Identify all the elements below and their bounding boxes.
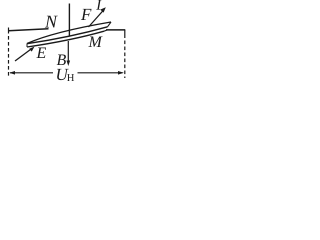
label M [88,37,102,47]
node: left dashed extension vertical [8,28,10,34]
arrow F: vertical force line above plate [68,4,70,37]
label E [36,48,46,58]
plate: right bottom closing edge [104,30,108,31]
label F [81,9,92,20]
plate: front bottom edge [27,31,104,47]
wire: right extension line from plate tip to dashed guide [106,29,125,31]
label N [45,16,58,28]
arrow E: field arrow at lower left [15,48,33,61]
label I [96,0,102,10]
plate top face: near edge [27,27,108,44]
label UH (H subscript) [67,74,74,81]
plate: left tip thickness [26,44,28,48]
plate top face: far edge from left tip over to right tip [27,22,111,44]
label B [57,55,66,66]
dimension line UH: right arrow [78,72,123,74]
dimension line UH: left arrow [10,72,53,74]
node: right dashed extension vertical [124,30,126,38]
wire: left extension line to dashed guide [9,29,49,31]
label UH (U) [57,69,69,80]
plate: right end edge [108,22,112,27]
arrow B: magnetic field line below plate [67,41,69,64]
arrow I: current direction at top right [89,10,104,27]
